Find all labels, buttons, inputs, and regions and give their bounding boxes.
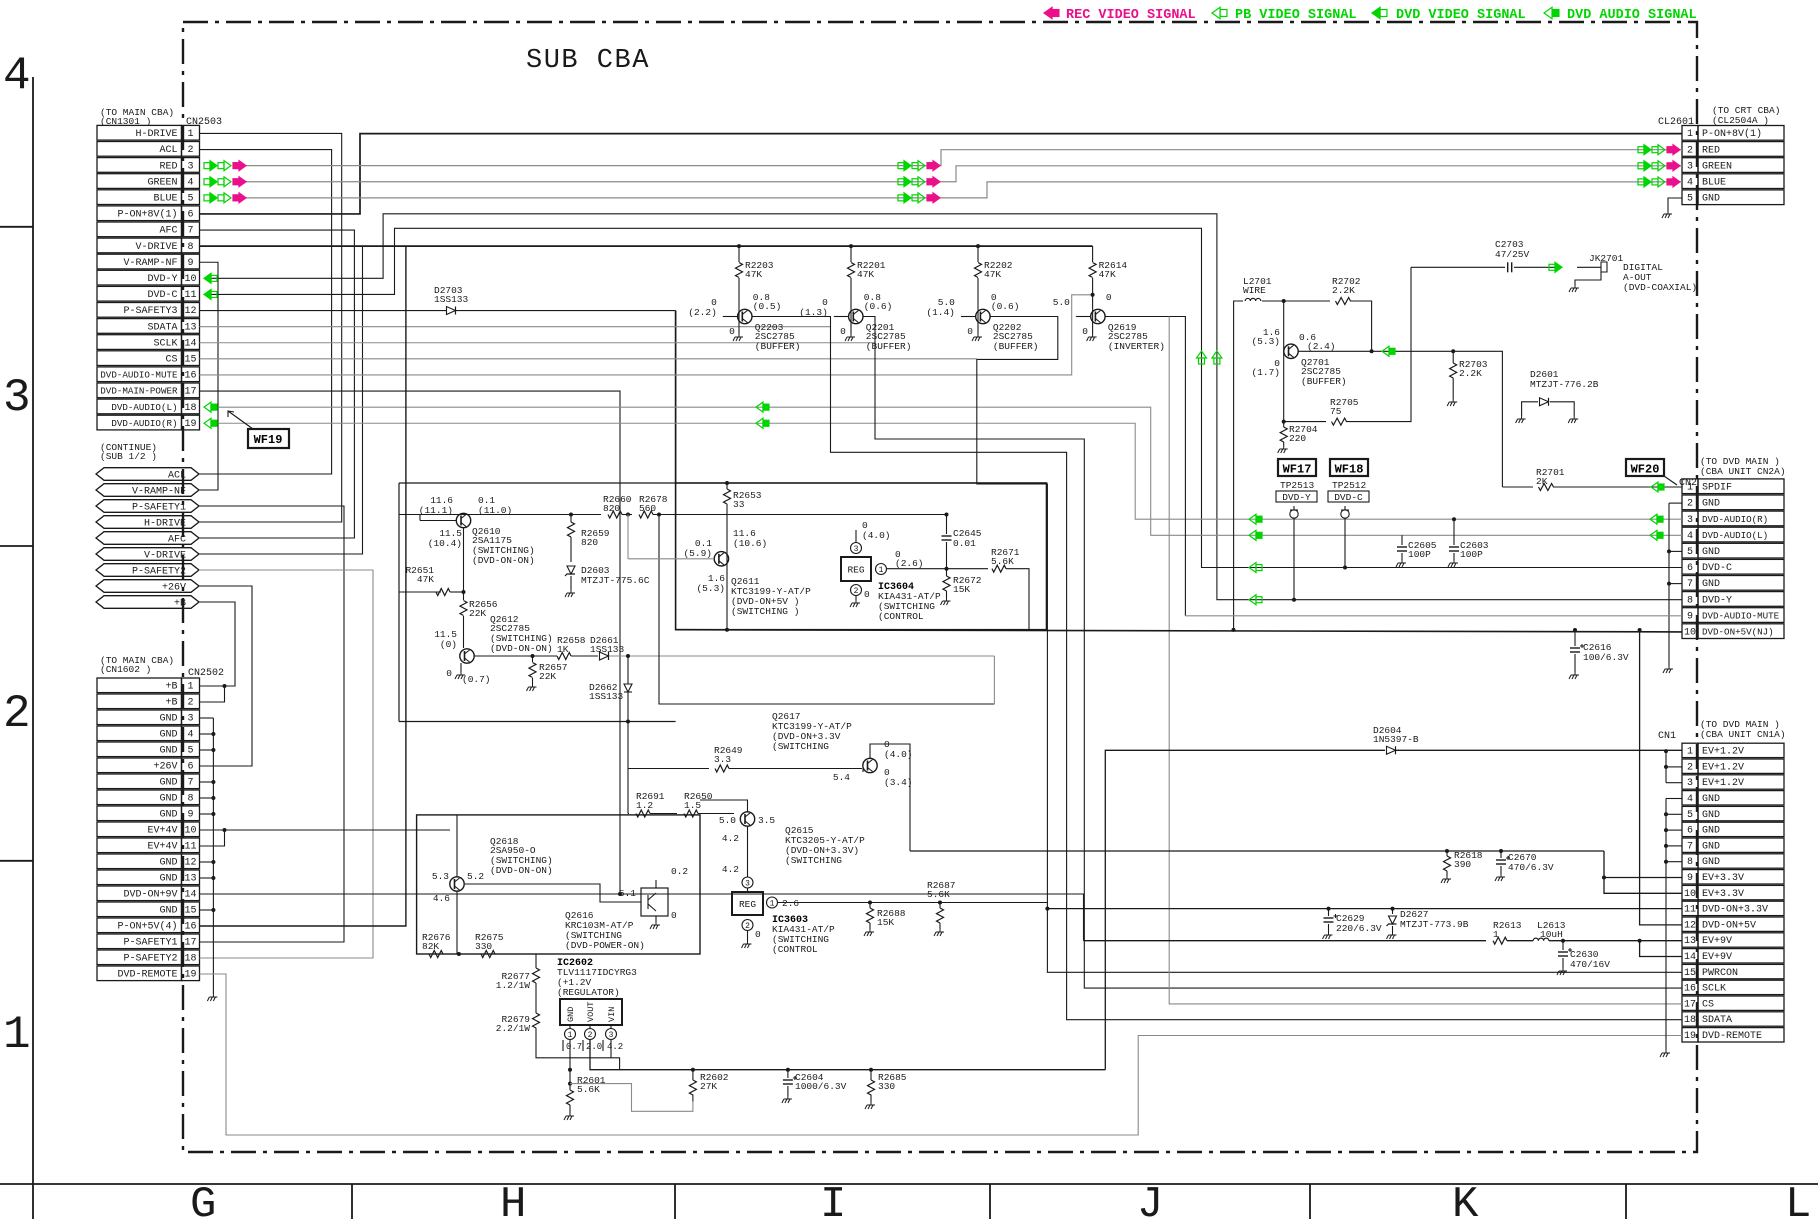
resistor R2703 2.2K xyxy=(1452,351,1454,363)
svg-text:1SS133: 1SS133 xyxy=(589,691,624,702)
connector CN2503 pin 17 DVD-MAIN-POWER xyxy=(97,383,182,398)
wire Q2612 emitter ground xyxy=(460,663,462,672)
svg-text:3.3: 3.3 xyxy=(714,754,731,765)
svg-text:CL2601: CL2601 xyxy=(1658,117,1694,128)
svg-text:DVD-REMOTE: DVD-REMOTE xyxy=(117,970,177,981)
wire Q2701 output to SPDIF xyxy=(1298,350,1372,352)
svg-text:0.2: 0.2 xyxy=(671,866,688,877)
svg-text:2.2K: 2.2K xyxy=(1459,368,1482,379)
connector CN1 pin 10 EV+3.3V xyxy=(1682,885,1698,899)
svg-text:(DVD-ON-ON): (DVD-ON-ON) xyxy=(490,643,553,654)
connector CN1 pin 5 GND xyxy=(1682,806,1698,820)
svg-text:11: 11 xyxy=(184,842,196,853)
wire Q2618 connections xyxy=(456,815,458,877)
svg-text:P-SAFETY1: P-SAFETY1 xyxy=(123,938,177,949)
resistor R2202 47K xyxy=(977,246,979,262)
svg-text:5.4: 5.4 xyxy=(833,772,850,783)
wire IC2602 output rail 1.2V xyxy=(569,1040,571,1058)
svg-text:330: 330 xyxy=(878,1081,895,1092)
svg-text:(0.6): (0.6) xyxy=(991,301,1020,312)
connector CN1 pin 17 CS xyxy=(1682,996,1698,1010)
svg-text:(10.4): (10.4) xyxy=(428,538,462,549)
svg-text:15: 15 xyxy=(184,355,196,366)
svg-text:(SUB 1/2 ): (SUB 1/2 ) xyxy=(100,451,157,462)
jack JK2701 digital A-out xyxy=(1577,266,1601,268)
connector CN2502 pin 5 GND xyxy=(97,742,182,757)
svg-text:GND: GND xyxy=(159,778,177,789)
svg-text:0: 0 xyxy=(755,929,761,940)
transistor Q2617 KTC3199 DVD-ON+3.3V switching xyxy=(863,758,877,772)
switch block outline xyxy=(676,483,1047,630)
svg-text:3: 3 xyxy=(1687,161,1693,172)
wire GREEN pin4 to CL2601 pin3 xyxy=(235,166,1682,182)
svg-text:5: 5 xyxy=(1687,810,1693,821)
wire DVD-MAIN-POWER pin17 xyxy=(200,391,621,894)
svg-text:1SS133: 1SS133 xyxy=(434,294,469,305)
svg-text:V-RAMP-NF: V-RAMP-NF xyxy=(123,258,177,269)
svg-text:470/16V: 470/16V xyxy=(1570,959,1610,970)
connector CN2503 pin 4 GREEN xyxy=(97,174,182,189)
svg-text:6: 6 xyxy=(1687,563,1693,574)
svg-text:1: 1 xyxy=(568,1031,573,1040)
svg-text:10: 10 xyxy=(184,274,196,285)
resistor R2687 5.6K xyxy=(938,901,942,905)
svg-text:5: 5 xyxy=(187,746,193,757)
svg-text:1: 1 xyxy=(879,566,884,575)
wire EV+3.3V to CN1 pins 9-10 xyxy=(1604,851,1682,893)
svg-text:GND: GND xyxy=(1702,826,1720,837)
svg-text:7: 7 xyxy=(187,778,193,789)
svg-text:DVD-C: DVD-C xyxy=(147,290,177,301)
svg-text:1.2/1W: 1.2/1W xyxy=(496,980,531,991)
arrow DVD-C at connector xyxy=(204,289,211,299)
legend DVD VIDEO SIGNAL arrow xyxy=(1372,7,1380,19)
connector CN2503 pin 19 DVD-AUDIO(R) xyxy=(97,415,182,430)
connector CN2 pin 2 GND xyxy=(1682,495,1698,510)
svg-text:DVD-ON+5V(NJ): DVD-ON+5V(NJ) xyxy=(1702,627,1774,638)
CN2502 ground bus xyxy=(212,718,214,994)
wire BLUE pin5 to CL2601 pin4 xyxy=(235,182,1682,198)
svg-text:6: 6 xyxy=(187,210,193,221)
wire Q2617 base/emitter xyxy=(862,769,864,773)
arrow DVD-Y at connector xyxy=(204,273,211,283)
legend DVD AUDIO SIGNAL arrow xyxy=(1544,7,1552,19)
connector CN1 pin 18 SDATA xyxy=(1682,1012,1698,1026)
IC3604 pin3 circle xyxy=(851,543,862,554)
wire R2691 R2650 line to Q2615 xyxy=(628,813,629,815)
svg-text:DVD-AUDIO-MUTE: DVD-AUDIO-MUTE xyxy=(100,370,178,381)
connector CN2502 pin 11 EV+4V xyxy=(97,838,182,853)
svg-text:8: 8 xyxy=(187,242,193,253)
svg-text:7: 7 xyxy=(1687,841,1693,852)
svg-text:PWRCON: PWRCON xyxy=(1702,968,1738,979)
legend PB VIDEO SIGNAL arrow xyxy=(1212,7,1220,19)
wire SDATA pin13 long run xyxy=(200,326,831,328)
svg-text:REC VIDEO SIGNAL: REC VIDEO SIGNAL xyxy=(1066,8,1196,23)
connector CN2503 pin 6 P-ON+8V(1) xyxy=(97,206,182,221)
svg-text:4: 4 xyxy=(1687,531,1693,542)
svg-text:(CONTROL: (CONTROL xyxy=(878,611,924,622)
net arrow ACL xyxy=(96,468,199,481)
resistor R2688 15K xyxy=(868,901,872,905)
net arrow AFC xyxy=(96,532,199,545)
wire V-DRIVE pin8 bus to pullup resistors xyxy=(200,245,1093,247)
svg-text:SDATA: SDATA xyxy=(147,322,177,333)
svg-text:5.0: 5.0 xyxy=(719,815,736,826)
svg-text:L: L xyxy=(1785,1180,1811,1219)
connector CN2502 pin 17 P-SAFETY1 xyxy=(97,934,182,949)
connector CN2503 pin 11 DVD-C xyxy=(97,286,182,301)
svg-text:1K: 1K xyxy=(557,644,569,655)
wire Q2619 output to audio mute xyxy=(1105,317,1185,616)
svg-text:VIN: VIN xyxy=(607,1007,617,1022)
svg-text:0: 0 xyxy=(840,326,846,337)
wire DVD-C pin11 to CN2 pin6 xyxy=(204,228,1682,567)
connector CN2503 pin 16 DVD-AUDIO-MUTE xyxy=(97,367,182,382)
svg-text:18: 18 xyxy=(184,954,196,965)
svg-text:(CBA UNIT CN1A): (CBA UNIT CN1A) xyxy=(1700,729,1786,740)
connector CN1 pin 12 DVD-ON+5V xyxy=(1682,917,1698,931)
wire REG pin1 to R2671 xyxy=(887,568,989,570)
svg-text:DVD-AUDIO(L): DVD-AUDIO(L) xyxy=(111,402,177,413)
resistor R2675 330 on box edge xyxy=(481,951,495,958)
EV+9V rail R2613 L2613 xyxy=(1084,940,1487,942)
connector CN2503 pin 3 RED xyxy=(97,158,182,173)
IC3603 pin1 circle xyxy=(767,897,778,908)
net arrow +26V xyxy=(96,580,199,593)
zener D2627 MTZJT-773.9B xyxy=(1391,907,1395,911)
svg-text:820: 820 xyxy=(603,503,620,514)
svg-text:DVD-C: DVD-C xyxy=(1334,492,1363,503)
signal arrows on RED at right xyxy=(1644,145,1651,155)
svg-text:4: 4 xyxy=(1687,794,1693,805)
connector CN2502 pin 13 GND xyxy=(97,870,182,885)
svg-text:0.7: 0.7 xyxy=(566,1042,582,1052)
resistor R2672 15K xyxy=(946,569,948,576)
signal arrows on BLUE at middle xyxy=(904,193,911,203)
svg-text:EV+3.3V: EV+3.3V xyxy=(1702,873,1744,884)
connector CN1 pin 14 EV+9V xyxy=(1682,949,1698,963)
svg-text:9: 9 xyxy=(187,258,193,269)
svg-text:27K: 27K xyxy=(700,1081,717,1092)
switching area outline left xyxy=(398,483,400,722)
svg-text:5.6K: 5.6K xyxy=(991,556,1014,567)
connector CN2502 pin 16 P-ON+5V(4) xyxy=(97,918,182,933)
svg-text:(1.7): (1.7) xyxy=(1251,367,1280,378)
svg-text:EV+3.3V: EV+3.3V xyxy=(1702,889,1744,900)
svg-text:(BUFFER): (BUFFER) xyxy=(993,341,1039,352)
svg-text:2: 2 xyxy=(588,1031,593,1040)
svg-text:(4.0): (4.0) xyxy=(884,749,913,760)
resistor R2671 5.6K xyxy=(992,565,1006,572)
svg-text:(DVD-COAXIAL): (DVD-COAXIAL) xyxy=(1623,282,1697,293)
connector CN2 pin 7 GND xyxy=(1682,576,1698,591)
net arrow V-DRIVE xyxy=(96,548,199,561)
svg-text:3: 3 xyxy=(1687,515,1693,526)
svg-text:EV+1.2V: EV+1.2V xyxy=(1702,747,1744,758)
junction dots on DVD-Y / DVD-C lines at test points xyxy=(1292,598,1296,602)
svg-text:(4.0): (4.0) xyxy=(862,530,891,541)
wire Q2612 collector to R2658 D2661 xyxy=(474,655,557,657)
svg-text:DVD-AUDIO(L): DVD-AUDIO(L) xyxy=(1702,530,1768,541)
CN1 EV+1.2V pin bundle xyxy=(1665,751,1667,783)
connector CN1 pin 16 SCLK xyxy=(1682,980,1698,994)
arrow digital out xyxy=(1555,262,1562,272)
svg-text:GND: GND xyxy=(159,746,177,757)
wire V-RAMP-NF pin9 to continue arrow xyxy=(199,262,218,490)
DVD-ON+5V rail to CN2 pin10 xyxy=(676,630,1682,632)
svg-text:(0): (0) xyxy=(440,639,457,650)
connector CN2502 pin 15 GND xyxy=(97,902,182,917)
svg-text:2: 2 xyxy=(187,145,193,156)
svg-text:AFC: AFC xyxy=(168,535,186,546)
connector CN1 pin 13 EV+9V xyxy=(1682,933,1698,947)
resistor R2658 1K xyxy=(557,653,571,660)
connector CN2 pin 3 DVD-AUDIO(R) xyxy=(1682,511,1698,526)
svg-text:5.3: 5.3 xyxy=(432,871,449,882)
svg-text:EV+9V: EV+9V xyxy=(1702,936,1732,947)
wire to D2662 xyxy=(627,656,629,684)
svg-text:16: 16 xyxy=(1684,984,1696,995)
wire Q2203 output xyxy=(752,317,1682,1020)
svg-text:220: 220 xyxy=(1289,433,1306,444)
svg-text:9: 9 xyxy=(187,810,193,821)
svg-text:CN1: CN1 xyxy=(1658,731,1676,742)
power switch block outline xyxy=(417,815,700,954)
svg-text:(10.6): (10.6) xyxy=(733,538,767,549)
svg-text:(5.3): (5.3) xyxy=(1251,336,1280,347)
svg-text:REG: REG xyxy=(739,899,756,910)
svg-text:GND: GND xyxy=(566,1007,576,1022)
resistor R2685 330 xyxy=(869,1068,873,1072)
resistor R2602 27K xyxy=(691,1068,695,1072)
diode D2661 1SS133 xyxy=(600,652,609,660)
net arrow P-SAFETY1 xyxy=(96,500,199,513)
svg-text:MTZJT-775.6C: MTZJT-775.6C xyxy=(581,575,650,586)
EV+3.3V rail xyxy=(910,850,1604,852)
svg-text:GND: GND xyxy=(1702,194,1720,205)
svg-text:SPDIF: SPDIF xyxy=(1702,483,1732,494)
wire audio mute line to CN2 pin9 xyxy=(1185,615,1682,617)
connector CN2 pin 10 DVD-ON+5V(NJ) xyxy=(1682,624,1698,639)
svg-text:DVD-ON+3.3V: DVD-ON+3.3V xyxy=(1702,905,1768,916)
connector CN2503 pin 14 SCLK xyxy=(97,335,182,350)
svg-text:3: 3 xyxy=(1687,778,1693,789)
svg-text:19: 19 xyxy=(184,419,196,430)
resistor R2651 47K xyxy=(399,591,441,593)
connector CN1 pin 7 GND xyxy=(1682,838,1698,852)
signal arrows on RED at left xyxy=(210,161,217,171)
connector CN2502 pin 14 DVD-ON+9V xyxy=(97,886,182,901)
svg-text:V-RAMP-NF: V-RAMP-NF xyxy=(132,487,186,498)
svg-text:GND: GND xyxy=(159,730,177,741)
connector CN1 pin 3 EV+1.2V xyxy=(1682,775,1698,789)
svg-text:1: 1 xyxy=(3,1009,31,1061)
resistor R2701 2K to SPDIF pin xyxy=(1502,486,1533,488)
svg-text:1: 1 xyxy=(187,129,193,140)
dash-dot sheet border xyxy=(183,22,1697,1152)
connector CN2502 pin 8 GND xyxy=(97,790,182,805)
svg-text:4: 4 xyxy=(187,177,193,188)
svg-text:SDATA: SDATA xyxy=(1702,1015,1732,1026)
connector CN2502 pin 12 GND xyxy=(97,854,182,869)
svg-text:GND: GND xyxy=(1702,841,1720,852)
connector CN2502 pin 4 GND xyxy=(97,726,182,741)
svg-text:EV+4V: EV+4V xyxy=(147,842,177,853)
transistor Q2202 2SC2785 (BUFFER) xyxy=(976,309,990,323)
svg-text:P-ON+8V(1): P-ON+8V(1) xyxy=(1702,128,1762,140)
wire DVD-ON+5V to CN1 pin12 xyxy=(1640,630,1682,925)
svg-text:GND: GND xyxy=(159,714,177,725)
connector CL2601 pin 5 GND xyxy=(1682,190,1698,205)
wire IC3603 pin1 to resistors xyxy=(778,902,1048,904)
svg-text:DVD-MAIN-POWER: DVD-MAIN-POWER xyxy=(100,386,178,397)
resistor R2660 820 xyxy=(608,511,622,518)
connector CN2503 pin 2 ACL xyxy=(97,142,182,157)
signal arrows on BLUE at right xyxy=(1644,177,1651,187)
svg-text:19: 19 xyxy=(1684,1031,1696,1042)
svg-text:GND: GND xyxy=(159,906,177,917)
resistor R2657 22K xyxy=(531,654,535,658)
svg-text:3.5: 3.5 xyxy=(758,815,775,826)
svg-text:13: 13 xyxy=(184,874,196,885)
svg-text:(2.6): (2.6) xyxy=(895,558,924,569)
svg-text:TP2513: TP2513 xyxy=(1280,480,1315,491)
CN2 ground bus xyxy=(1668,503,1670,666)
svg-text:H: H xyxy=(500,1180,526,1219)
svg-text:1: 1 xyxy=(187,682,193,693)
svg-text:2: 2 xyxy=(745,922,750,931)
svg-text:22K: 22K xyxy=(469,608,486,619)
WF20 waveform box xyxy=(1626,459,1664,476)
svg-text:8: 8 xyxy=(1687,595,1693,606)
svg-text:DVD-Y: DVD-Y xyxy=(1282,492,1311,503)
svg-text:PB VIDEO SIGNAL: PB VIDEO SIGNAL xyxy=(1235,8,1357,23)
svg-text:820: 820 xyxy=(581,537,598,548)
svg-text:SCLK: SCLK xyxy=(153,338,177,349)
svg-text:GREEN: GREEN xyxy=(1702,161,1732,172)
svg-text:GND: GND xyxy=(159,794,177,805)
svg-text:22K: 22K xyxy=(539,671,556,682)
resistor R2650 1.5 xyxy=(650,813,677,815)
svg-text:0: 0 xyxy=(967,326,973,337)
svg-text:100P: 100P xyxy=(1460,549,1483,560)
capacitor C2605 100P xyxy=(1401,535,1403,545)
svg-text:15: 15 xyxy=(184,906,196,917)
DVD-ON+3.3V rail to CN1 pin11 xyxy=(1047,908,1682,910)
resistor R2702 2.2K xyxy=(1284,300,1330,302)
connector CN2 pin 1 SPDIF xyxy=(1682,479,1698,494)
svg-text:10: 10 xyxy=(1684,628,1696,639)
diode D2703 1SS133 xyxy=(447,307,456,315)
svg-text:4.2: 4.2 xyxy=(607,1042,623,1052)
resistor R2704 220 xyxy=(1283,422,1285,427)
svg-text:14: 14 xyxy=(184,338,196,349)
connector CN2503 pin 15 CS xyxy=(97,351,182,366)
svg-text:3: 3 xyxy=(745,880,750,889)
connector CN1 pin 19 DVD-REMOTE xyxy=(1682,1028,1698,1042)
svg-text:5.6K: 5.6K xyxy=(577,1084,600,1095)
svg-text:47/25V: 47/25V xyxy=(1495,249,1530,260)
resistor R2705 75 xyxy=(1284,421,1326,423)
ground CL2601 pin5 xyxy=(1668,198,1682,211)
svg-text:12: 12 xyxy=(184,858,196,869)
capacitor C2604 1000/6.3V xyxy=(786,1068,790,1072)
svg-text:100/6.3V: 100/6.3V xyxy=(1583,652,1629,663)
svg-text:10: 10 xyxy=(184,826,196,837)
resistor R2614 47K xyxy=(1092,246,1094,262)
svg-text:18: 18 xyxy=(184,403,196,414)
connector CN2503 pin 7 AFC xyxy=(97,222,182,237)
net arrow V-RAMP-NF xyxy=(96,484,199,497)
svg-text:47K: 47K xyxy=(1099,269,1116,280)
svg-text:2K: 2K xyxy=(1536,476,1548,487)
svg-text:DVD-C: DVD-C xyxy=(1702,563,1732,574)
svg-text:(3.4): (3.4) xyxy=(884,777,913,788)
diode D2604 1N5397-B to EV+1.2V xyxy=(1105,750,1385,1069)
resistor R2653 33 xyxy=(725,481,729,485)
svg-text:2.2K: 2.2K xyxy=(1332,285,1355,296)
WF18 waveform box xyxy=(1330,459,1368,476)
svg-text:2.0: 2.0 xyxy=(586,1042,602,1052)
svg-text:13: 13 xyxy=(1684,936,1696,947)
svg-text:GREEN: GREEN xyxy=(147,177,177,188)
svg-text:GND: GND xyxy=(1702,499,1720,510)
resistor R2677 1.2/1W xyxy=(535,954,537,968)
svg-text:390: 390 xyxy=(1454,859,1471,870)
svg-text:P-SAFETY3: P-SAFETY3 xyxy=(123,306,177,317)
transistor Q2619 2SC2785 (INVERTER) xyxy=(1091,309,1105,323)
transistor Q2203 2SC2785 (BUFFER) xyxy=(738,309,752,323)
svg-text:11: 11 xyxy=(1684,905,1696,916)
svg-text:47K: 47K xyxy=(745,269,762,280)
wire pin1 to R2601 xyxy=(569,1058,571,1090)
svg-text:17: 17 xyxy=(1684,999,1696,1010)
svg-text:J: J xyxy=(1137,1180,1163,1219)
svg-text:CS: CS xyxy=(165,355,177,366)
transistor Q2201 2SC2785 (BUFFER) xyxy=(849,309,863,323)
svg-text:75: 75 xyxy=(1330,406,1342,417)
WF19 callout box xyxy=(248,429,289,448)
svg-text:H-DRIVE: H-DRIVE xyxy=(144,519,186,530)
svg-text:100P: 100P xyxy=(1408,549,1431,560)
wire Q2615 emitter chain to IC3603 xyxy=(747,826,749,877)
svg-text:4: 4 xyxy=(1687,178,1693,189)
wire ACL pin2 to continue arrow xyxy=(199,150,332,474)
svg-text:ACL: ACL xyxy=(159,145,177,156)
ground symbol CN2502 bus xyxy=(207,994,217,1001)
svg-text:2: 2 xyxy=(3,688,31,740)
svg-text:17: 17 xyxy=(184,938,196,949)
svg-text:MTZJT-776.2B: MTZJT-776.2B xyxy=(1530,379,1599,390)
svg-text:1: 1 xyxy=(1687,129,1693,140)
svg-text:470/6.3V: 470/6.3V xyxy=(1508,862,1554,873)
capacitor C2670 470/6.3V xyxy=(1499,849,1503,853)
wire R2649 line xyxy=(628,768,709,770)
svg-text:EV+1.2V: EV+1.2V xyxy=(1702,762,1744,773)
svg-text:K: K xyxy=(1452,1180,1479,1219)
drawing frame left ruler xyxy=(32,77,34,1219)
IC2602 pins 1 2 3 xyxy=(565,1029,576,1040)
wire Q2617 collector to EV3.3 rail xyxy=(870,744,910,851)
wire Q2610 emitter down to R2656 xyxy=(463,528,465,600)
svg-text:1: 1 xyxy=(1687,483,1693,494)
svg-text:(0.5): (0.5) xyxy=(753,301,782,312)
svg-text:33: 33 xyxy=(733,499,745,510)
wire P-SAFETY2 arrow to CN2502 pin18 xyxy=(199,570,373,958)
svg-text:CN2503: CN2503 xyxy=(186,117,222,128)
svg-text:H-DRIVE: H-DRIVE xyxy=(135,129,177,140)
